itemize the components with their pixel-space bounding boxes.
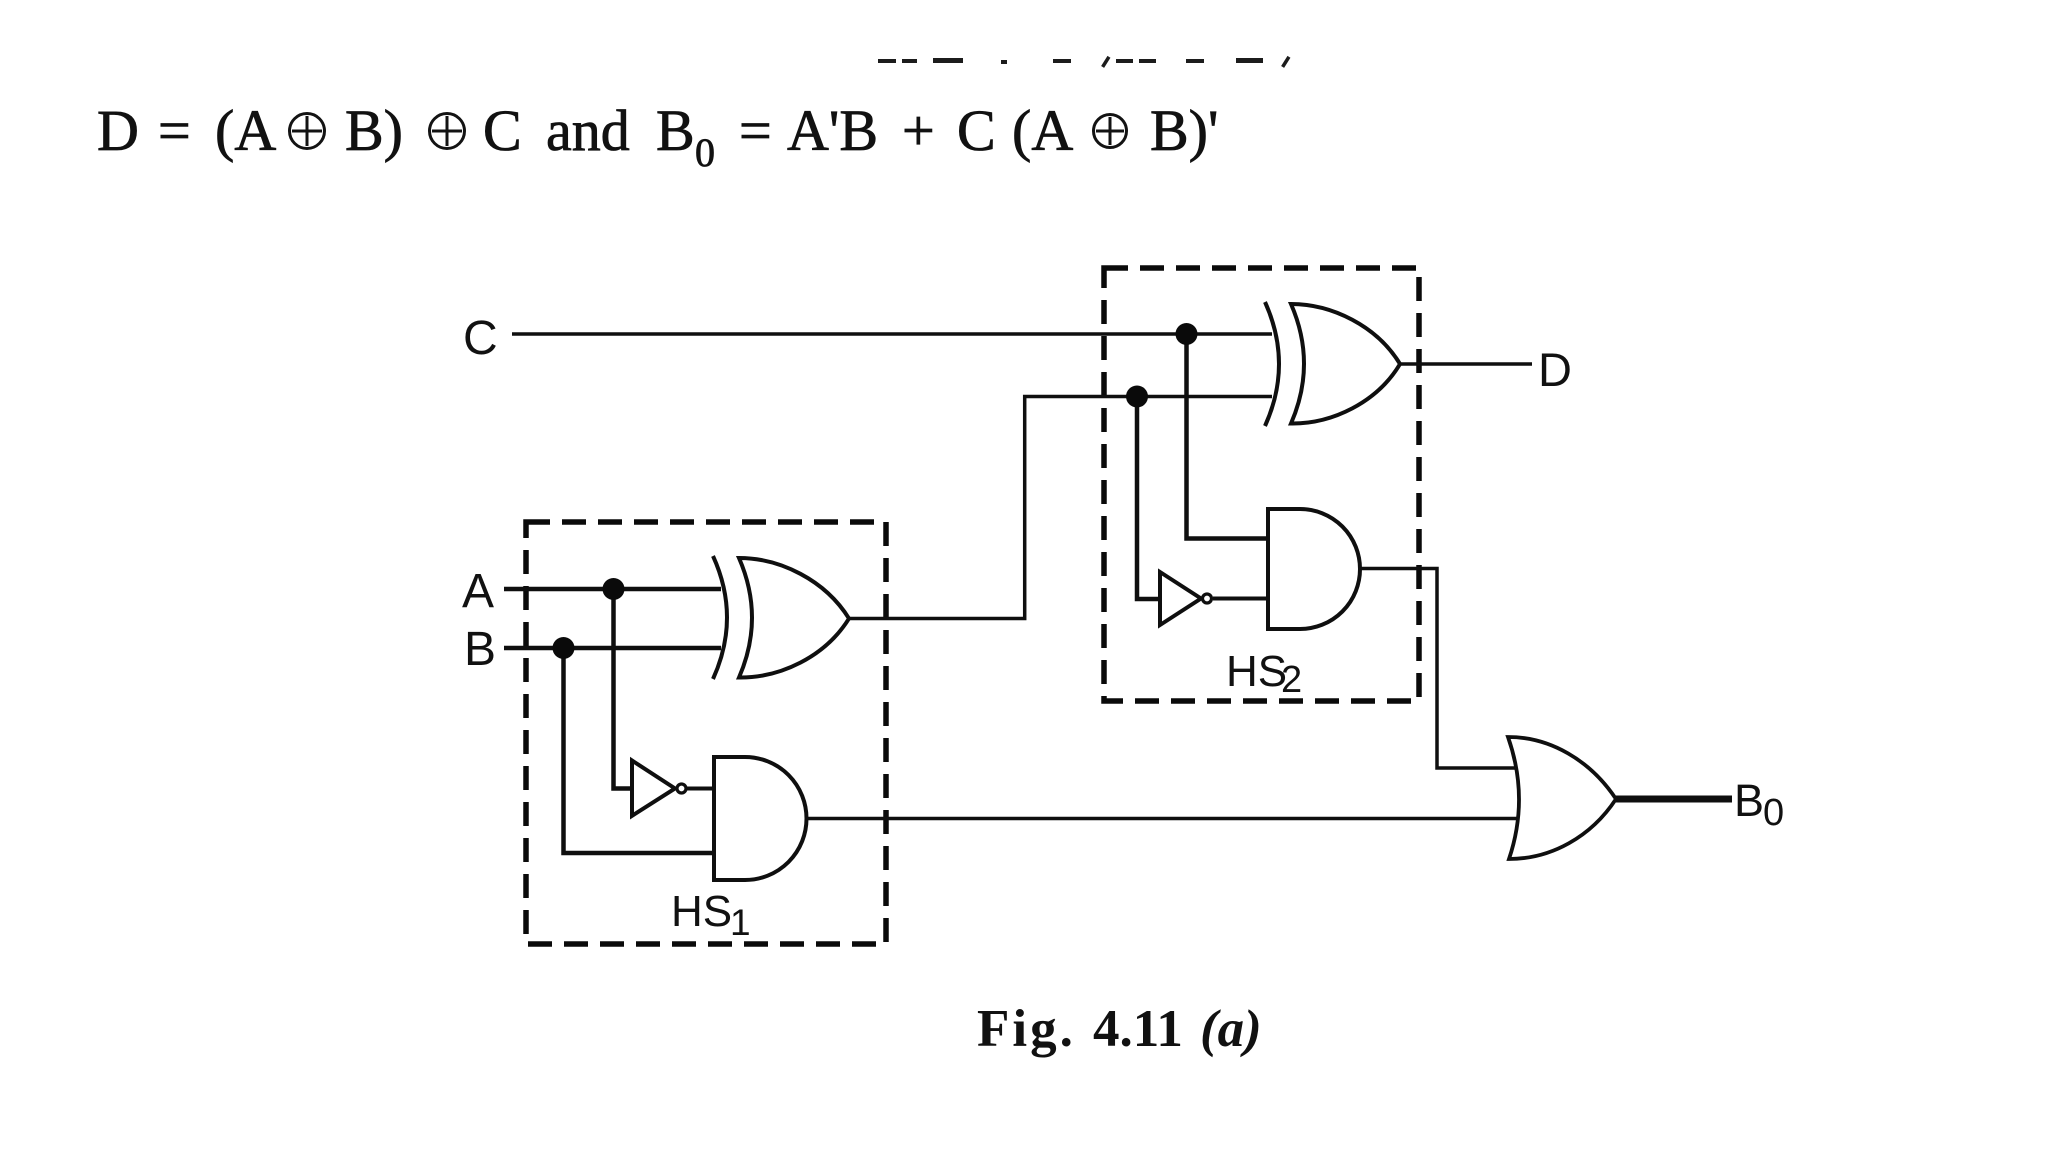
svg-text:B: B (656, 98, 695, 163)
svg-text:B: B (464, 623, 496, 676)
svg-text:1: 1 (730, 902, 751, 943)
svg-text:=: = (739, 98, 772, 163)
svg-text:C: C (483, 98, 522, 163)
svg-text:(A: (A (215, 98, 276, 163)
svg-text:D: D (1538, 343, 1572, 396)
svg-text:B: B (1734, 775, 1764, 826)
svg-text:and: and (546, 98, 630, 163)
svg-text:2: 2 (1281, 659, 1302, 701)
svg-text:C: C (957, 98, 996, 163)
svg-text:HS: HS (1226, 647, 1287, 696)
svg-text:0: 0 (695, 130, 715, 175)
svg-text:C: C (463, 312, 498, 365)
svg-text:B)': B)' (1150, 98, 1218, 163)
svg-text:B): B) (345, 98, 403, 163)
svg-text:HS: HS (671, 887, 732, 936)
svg-text:0: 0 (1763, 792, 1784, 834)
svg-text:=: = (158, 98, 191, 163)
svg-text:A'B: A'B (787, 98, 878, 163)
svg-text:4.11: 4.11 (1093, 1000, 1183, 1058)
svg-text:D: D (97, 98, 139, 163)
svg-text:A: A (462, 565, 494, 618)
svg-text:+: + (902, 98, 935, 163)
svg-text:(A: (A (1012, 98, 1073, 163)
svg-text:Fig.: Fig. (977, 1000, 1076, 1058)
svg-text:(a): (a) (1200, 1000, 1262, 1058)
